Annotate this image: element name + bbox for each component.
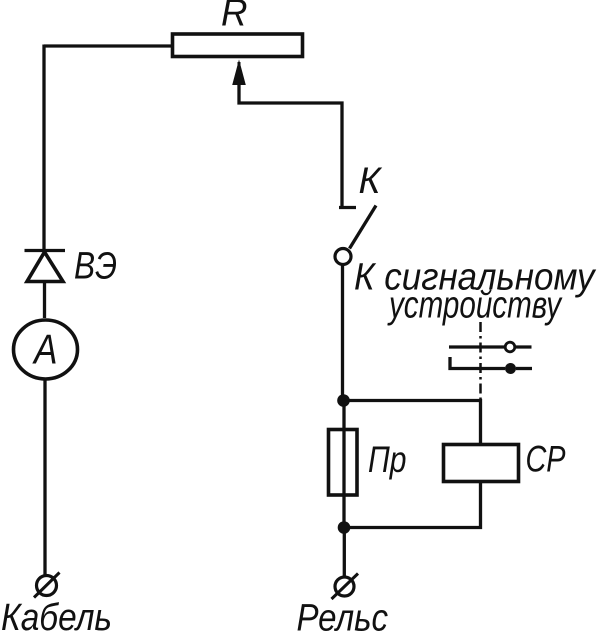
svg-text:А: А (31, 326, 57, 373)
svg-text:СР: СР (526, 439, 566, 480)
svg-text:R: R (221, 0, 248, 35)
svg-text:ВЭ: ВЭ (74, 246, 117, 288)
svg-text:Рельс: Рельс (297, 598, 389, 635)
svg-text:К: К (359, 160, 383, 201)
svg-text:Пр: Пр (368, 439, 407, 480)
svg-text:Кабель: Кабель (1, 597, 112, 635)
svg-text:устройству: устройству (387, 285, 563, 327)
